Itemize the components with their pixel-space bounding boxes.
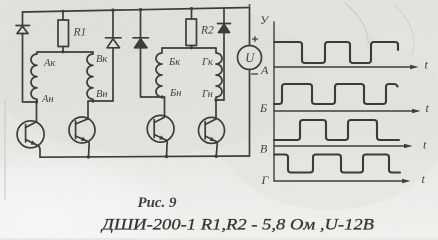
voltmeter U1	[238, 46, 262, 70]
wire: +V top rail	[23, 8, 250, 13]
resistor R2	[186, 9, 197, 48]
waveform V	[274, 120, 399, 140]
node Vn	[91, 99, 94, 102]
transistor VT3	[147, 115, 174, 157]
junction dots on top rail	[62, 10, 65, 13]
wire: bottom rail	[40, 156, 250, 157]
axis: voltage axis	[273, 22, 275, 181]
resistor R1	[58, 11, 69, 52]
wire VD2 anode down to node Vn	[112, 48, 114, 101]
minus sign	[252, 73, 258, 75]
wire: R2 bottom bus to winding tops	[162, 47, 216, 49]
axis: time axis G	[274, 180, 407, 182]
wire Vn link to VD2 and VT2 collector	[88, 101, 113, 119]
diode VD1	[16, 12, 30, 34]
junction dots on bottom rail	[87, 155, 90, 158]
transistor VT2	[69, 117, 95, 157]
waveform A	[274, 42, 398, 63]
wire top rail to voltmeter	[249, 8, 251, 46]
wire VD3 anode down to node Bn	[141, 48, 165, 97]
axis: time axis A	[274, 66, 415, 68]
transistor VT4	[199, 117, 225, 157]
inductor winding Vk	[87, 52, 93, 101]
plus sign	[253, 37, 258, 42]
diode VD4	[218, 8, 231, 33]
axis: time axis B	[274, 110, 417, 112]
node Gn	[214, 98, 217, 101]
wire VD1 cathode down to node An	[23, 34, 37, 103]
decorative scan artifacts (unlabeled)	[4, 100, 6, 200]
wire VD4 anode down to node Gn	[223, 33, 225, 101]
diode VD2	[106, 10, 122, 48]
waveform G	[274, 155, 400, 173]
axis: time axis V	[274, 145, 409, 147]
wire An to VT1 collector	[36, 102, 38, 122]
diode VD3	[133, 10, 149, 48]
junction dot R1 bottom	[61, 50, 64, 53]
junction dot R2 bottom	[190, 46, 193, 49]
node An	[35, 100, 38, 103]
transistor VT1	[17, 121, 44, 157]
wire Bn to VT3 collector	[164, 97, 166, 116]
inductor winding Bk	[156, 48, 162, 97]
inductor winding Ak	[31, 52, 37, 102]
inductor winding Gk	[216, 48, 222, 100]
waveform B	[274, 84, 398, 104]
wire Gn link to VD4 and VT4 collector	[216, 100, 224, 118]
node Bn	[160, 95, 163, 98]
wire: R1 bottom bus to winding tops	[37, 51, 93, 53]
paper texture (decorative)	[0, 0, 1, 1]
wire voltmeter to bottom rail	[249, 70, 251, 157]
